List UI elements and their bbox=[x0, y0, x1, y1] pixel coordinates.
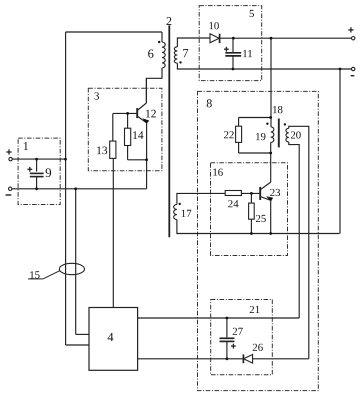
svg-text:18: 18 bbox=[272, 104, 283, 116]
svg-text:1: 1 bbox=[23, 139, 29, 153]
svg-text:12: 12 bbox=[145, 108, 157, 120]
svg-text:26: 26 bbox=[252, 342, 263, 354]
svg-text:23: 23 bbox=[270, 187, 281, 199]
svg-text:22: 22 bbox=[223, 129, 234, 141]
svg-text:14: 14 bbox=[132, 130, 144, 142]
svg-text:8: 8 bbox=[206, 96, 212, 110]
svg-text:2: 2 bbox=[166, 14, 172, 28]
svg-text:4: 4 bbox=[107, 330, 114, 344]
svg-text:17: 17 bbox=[181, 208, 192, 220]
svg-text:10: 10 bbox=[208, 20, 219, 32]
svg-text:11: 11 bbox=[242, 48, 252, 60]
svg-text:24: 24 bbox=[228, 198, 239, 210]
svg-text:7: 7 bbox=[182, 46, 188, 60]
svg-text:15: 15 bbox=[29, 269, 40, 281]
svg-text:9: 9 bbox=[45, 165, 52, 180]
svg-text:3: 3 bbox=[94, 90, 99, 102]
svg-text:13: 13 bbox=[96, 145, 108, 157]
svg-text:19: 19 bbox=[255, 131, 266, 143]
svg-text:21: 21 bbox=[249, 304, 260, 316]
svg-text:16: 16 bbox=[212, 167, 223, 179]
svg-text:25: 25 bbox=[255, 213, 266, 225]
svg-text:27: 27 bbox=[232, 326, 243, 338]
svg-text:5: 5 bbox=[249, 8, 254, 20]
svg-text:6: 6 bbox=[148, 47, 154, 61]
svg-text:20: 20 bbox=[290, 129, 301, 141]
